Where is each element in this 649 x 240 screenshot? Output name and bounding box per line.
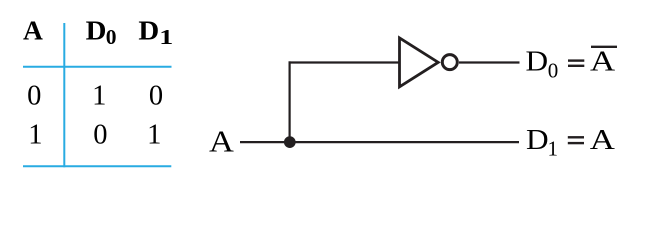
svg-text:0: 0 — [548, 59, 559, 83]
svg-text:D: D — [526, 45, 549, 78]
svg-text:1: 1 — [548, 137, 559, 161]
svg-text:D: D — [86, 16, 107, 46]
svg-text:0: 0 — [106, 25, 117, 49]
svg-text:A: A — [590, 44, 615, 77]
svg-text:0: 0 — [149, 81, 163, 112]
svg-text:0: 0 — [27, 81, 41, 112]
svg-text:1: 1 — [147, 120, 161, 151]
svg-text:D: D — [526, 123, 549, 156]
svg-text:1: 1 — [28, 120, 42, 151]
svg-text:A: A — [23, 15, 43, 46]
svg-text:D: D — [138, 16, 159, 46]
svg-text:0: 0 — [93, 120, 107, 151]
svg-text:1: 1 — [92, 81, 106, 112]
svg-text:1: 1 — [159, 26, 173, 49]
svg-text:A: A — [590, 123, 615, 156]
svg-text:A: A — [209, 125, 234, 159]
